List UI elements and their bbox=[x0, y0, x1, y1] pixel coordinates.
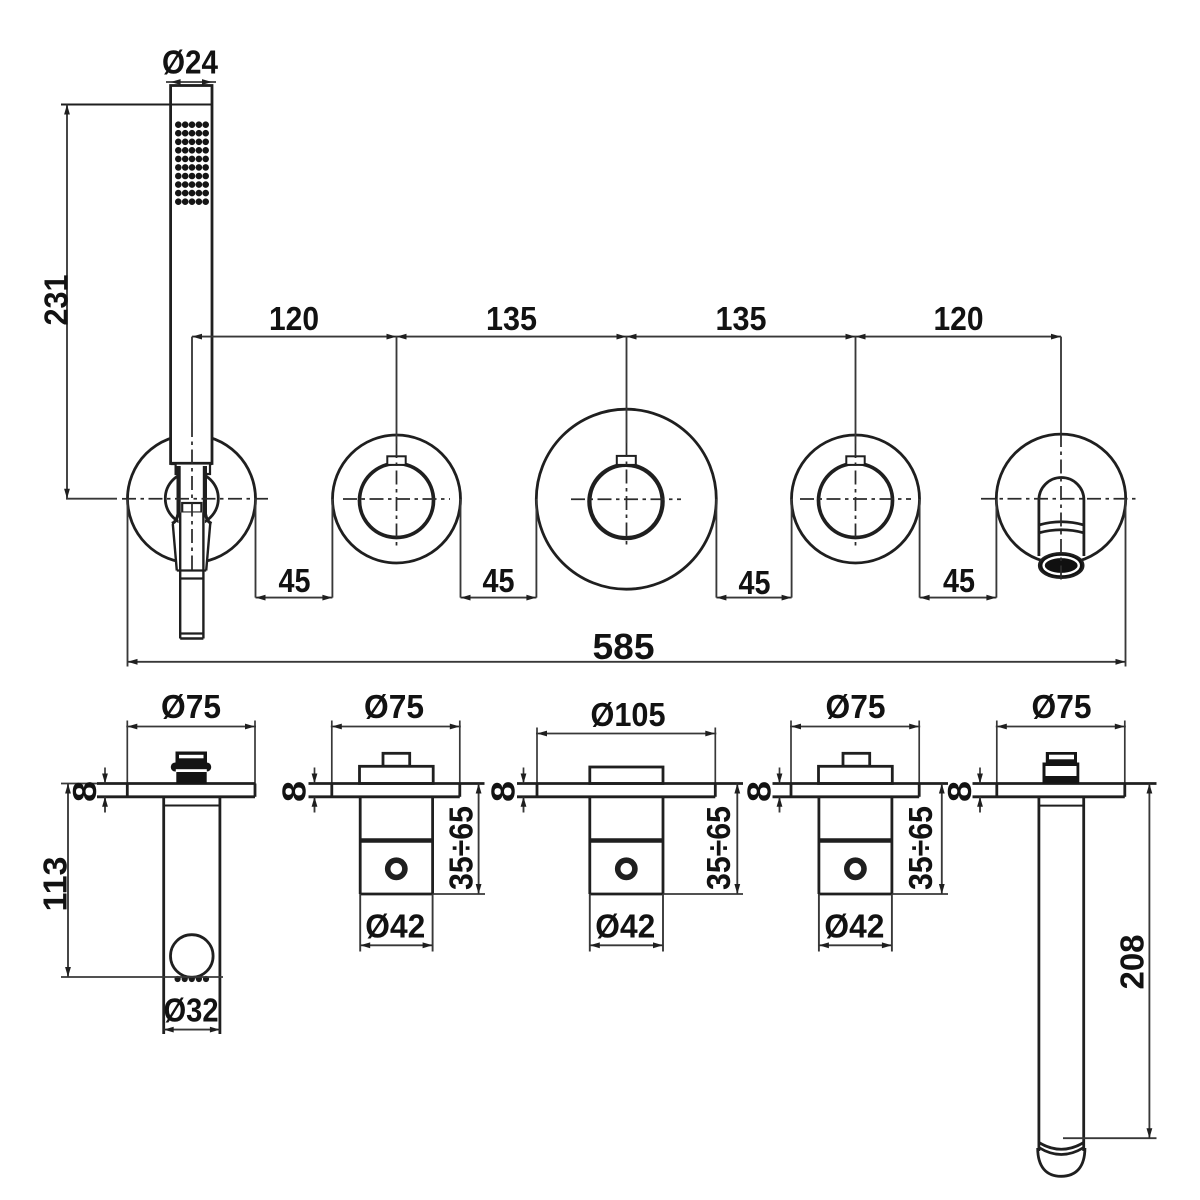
dimension D75 view4 bbox=[790, 726, 920, 728]
extension line C5 bbox=[1060, 337, 1062, 433]
svg-text:8: 8 bbox=[66, 781, 103, 802]
handshower handle end line bbox=[171, 462, 212, 465]
svg-text:8: 8 bbox=[741, 781, 778, 802]
svg-text:35÷65: 35÷65 bbox=[902, 806, 939, 890]
view2 valve body bbox=[359, 797, 362, 894]
centreline horizontal C1 bbox=[122, 498, 268, 500]
view1 holder ball bbox=[171, 935, 214, 978]
dimension 45 (C1-C2) bbox=[256, 597, 333, 599]
dimension 35-65 (view3) bbox=[736, 784, 738, 895]
view1 holder tube bbox=[162, 797, 165, 1034]
extension line C4 bbox=[855, 337, 857, 444]
dimension 8 (view2) bbox=[314, 768, 316, 784]
handshower spray face dots bbox=[175, 121, 209, 205]
svg-text:Ø42: Ø42 bbox=[595, 908, 655, 945]
holder cup (tapered) bbox=[173, 524, 210, 571]
view4 screw circle bbox=[847, 860, 864, 877]
spout tube front view bbox=[1039, 478, 1084, 556]
view1 grip bumps bbox=[175, 976, 210, 982]
dimension 231 bbox=[66, 105, 68, 499]
svg-text:Ø105: Ø105 bbox=[591, 696, 666, 733]
valve handle C2 bbox=[360, 464, 434, 538]
svg-text:Ø32: Ø32 bbox=[164, 992, 219, 1029]
svg-text:135: 135 bbox=[716, 300, 767, 337]
svg-text:45: 45 bbox=[739, 564, 771, 601]
dimension 8 (view4) bbox=[779, 768, 781, 784]
dimension 8 (view5) bbox=[979, 768, 981, 784]
view1 hose connector fitting on plate bbox=[176, 752, 208, 765]
spout outlet opening bbox=[1039, 553, 1084, 578]
dimension 45 (C4-C5) bbox=[920, 597, 997, 599]
svg-text:Ø42: Ø42 bbox=[824, 908, 884, 945]
handle tab C4 bbox=[846, 456, 864, 465]
svg-text:208: 208 bbox=[1114, 935, 1151, 990]
dimension D24 bbox=[166, 81, 216, 83]
svg-text:585: 585 bbox=[593, 626, 655, 667]
view4 handle cap bbox=[843, 753, 870, 766]
svg-text:45: 45 bbox=[279, 562, 311, 599]
centreline vertical C4 bbox=[855, 444, 857, 547]
holder set screw block bbox=[182, 503, 201, 513]
view1 wall plate side view bbox=[97, 782, 255, 785]
extension line C1 bbox=[191, 337, 193, 423]
dimension D75 view1 bbox=[126, 726, 256, 728]
view3 body bottom line + 35-65 extension bbox=[590, 893, 663, 896]
dimension 208 bbox=[1063, 1137, 1157, 1139]
dimension 45 (C2-C3) bbox=[461, 597, 537, 599]
dimension D42 (view4) bbox=[818, 894, 820, 952]
wall plate circle C1 (handshower holder escutcheon) bbox=[128, 435, 256, 563]
dimension 8 (view3) bbox=[523, 768, 525, 784]
view5 spout bottom cap bbox=[1038, 1148, 1085, 1176]
svg-text:8: 8 bbox=[941, 781, 978, 802]
holder bracket bars bbox=[177, 466, 181, 516]
svg-text:35÷65: 35÷65 bbox=[700, 806, 737, 890]
dimension D75 view5 bbox=[996, 726, 1126, 728]
view4 wall plate side view bbox=[773, 782, 949, 785]
view3 wall plate side view bbox=[517, 782, 743, 785]
dimension 585 bbox=[127, 499, 129, 667]
view2 screw circle bbox=[388, 860, 405, 877]
svg-text:Ø75: Ø75 bbox=[161, 688, 221, 725]
wall plate circle C5 (spout escutcheon) bbox=[996, 434, 1125, 563]
view5 spout tube bbox=[1038, 797, 1041, 1151]
view3 thick divider bbox=[590, 838, 663, 843]
svg-text:135: 135 bbox=[486, 300, 537, 337]
dimension 35-65 (view4) bbox=[941, 784, 943, 895]
view5 spout tip rings bbox=[1039, 1143, 1084, 1150]
holder ball bbox=[165, 472, 218, 525]
wall plate circle C4 (valve escutcheon) bbox=[792, 435, 920, 563]
45 drop lines from circle tangents bbox=[255, 499, 257, 598]
svg-text:45: 45 bbox=[943, 562, 975, 599]
svg-text:35÷65: 35÷65 bbox=[443, 806, 480, 890]
view5 wall plate side view bbox=[973, 782, 1157, 785]
svg-text:45: 45 bbox=[483, 562, 515, 599]
svg-text:Ø75: Ø75 bbox=[1032, 688, 1092, 725]
centreline horizontal C5 bbox=[981, 498, 1140, 500]
centreline vertical C3 bbox=[626, 443, 628, 547]
centreline horizontal C2 bbox=[343, 498, 450, 500]
handshower handle lower step bbox=[176, 464, 210, 475]
svg-text:Ø75: Ø75 bbox=[826, 688, 886, 725]
view4 thick divider bbox=[819, 838, 892, 843]
view5 supply fitting on plate bbox=[1046, 752, 1077, 763]
view2 thick divider bbox=[360, 838, 432, 843]
view2 wall plate side view bbox=[309, 782, 485, 785]
centreline vertical C5 bbox=[1060, 433, 1062, 580]
dimension chain 120/135/135/120 bbox=[192, 336, 1061, 338]
centreline horizontal C4 bbox=[800, 498, 911, 500]
view2 body bottom line + 35-65 extension bbox=[360, 893, 432, 896]
svg-text:120: 120 bbox=[934, 300, 984, 337]
svg-text:231: 231 bbox=[38, 275, 75, 326]
view3 handle cap bbox=[590, 767, 663, 784]
svg-text:Ø24: Ø24 bbox=[162, 44, 219, 81]
hose connector tail bbox=[179, 513, 181, 639]
dimension D75 view2 bbox=[331, 726, 461, 728]
centreline vertical C2 bbox=[396, 444, 398, 547]
handshower body bbox=[171, 86, 212, 464]
dimension 45 (C3-C4) bbox=[716, 597, 791, 599]
view4 body bottom line + 35-65 extension bbox=[819, 893, 892, 896]
dimension D42 (view2) bbox=[359, 894, 361, 952]
extension line C2 bbox=[396, 337, 398, 444]
dimension D42 (view3) bbox=[589, 894, 591, 952]
wall plate circle C2 (valve escutcheon) bbox=[333, 435, 461, 563]
extension line C3 bbox=[626, 337, 628, 443]
dimension 8 (view1) bbox=[104, 768, 106, 784]
centreline horizontal C3 bbox=[571, 498, 681, 500]
view3 screw circle bbox=[618, 860, 635, 877]
view4 valve body bbox=[818, 797, 821, 894]
svg-text:8: 8 bbox=[276, 781, 313, 802]
wall plate circle C3 (thermostat escutcheon D105) bbox=[536, 409, 716, 589]
thermostat handle C3 bbox=[589, 465, 662, 538]
handle tab C2 bbox=[387, 456, 405, 465]
handle tab C3 bbox=[617, 456, 636, 465]
valve handle C4 bbox=[819, 464, 893, 538]
dimension 113 bbox=[61, 783, 97, 785]
centreline vertical C1 bbox=[191, 423, 193, 574]
dimension D105 view3 bbox=[536, 733, 716, 735]
dimension 35-65 (view2) bbox=[478, 784, 480, 895]
view3 valve body bbox=[588, 797, 591, 894]
dimension D32 bbox=[164, 1029, 220, 1031]
handshower head cap line + 231 extension line bbox=[61, 104, 212, 106]
svg-text:Ø42: Ø42 bbox=[365, 908, 425, 945]
svg-text:120: 120 bbox=[269, 300, 319, 337]
svg-text:Ø75: Ø75 bbox=[364, 688, 424, 725]
svg-text:8: 8 bbox=[485, 781, 522, 802]
view2 handle cap bbox=[383, 753, 410, 766]
svg-text:113: 113 bbox=[37, 857, 74, 912]
